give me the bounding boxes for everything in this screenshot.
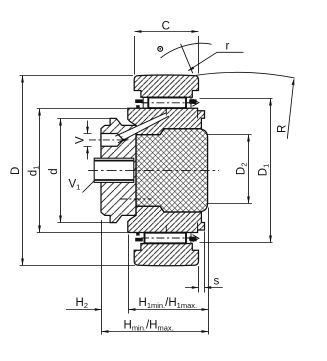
lubrication hole V (white cut with drill cone) — [101, 134, 123, 147]
thrust washer divider top — [197, 111, 199, 119]
roller bottom — [135, 233, 199, 244]
seal left black — [135, 99, 143, 103]
dim R (crown radius arc + leader) — [196, 72, 295, 139]
dim Hmin/Hmax — [102, 330, 209, 333]
inner ring top — [128, 108, 205, 134]
dim H1min/H1max — [129, 308, 209, 311]
svg-text:s: s — [214, 276, 220, 288]
svg-text:R: R — [277, 125, 289, 133]
dim r (corner radius leader) — [188, 52, 244, 71]
mirrored hole centerline bottom — [120, 198, 152, 200]
roller centerline top — [141, 102, 195, 104]
leader V1 — [83, 181, 95, 193]
svg-text:C: C — [162, 20, 170, 32]
dim d — [57, 119, 110, 223]
svg-text:d: d — [48, 168, 60, 174]
flange (sectioned) — [101, 118, 136, 222]
dim H2 — [66, 308, 102, 311]
seal right black — [189, 99, 196, 104]
outer ring bottom (crowned, sectioned) — [134, 244, 198, 266]
inner ring bottom — [128, 206, 205, 232]
dim D — [20, 76, 136, 266]
elastomer insert (cross-hatched) — [136, 129, 208, 212]
cage pocket right — [186, 98, 191, 108]
lubrication duct (white channel through flange) — [115, 113, 169, 143]
svg-text:D: D — [10, 167, 22, 175]
extension verticals for H dims — [102, 208, 209, 335]
V hole centerline with arrow — [89, 139, 126, 141]
grease nipple position mark (circled dot + arc) — [158, 43, 212, 73]
dim V (outside arrows) — [84, 121, 92, 160]
roller centerline bottom — [141, 237, 195, 239]
outer ring top (crowned, sectioned) — [134, 75, 198, 97]
cage pocket left — [143, 98, 148, 109]
dim s (outside arrows) — [185, 232, 223, 293]
svg-text:r: r — [226, 41, 230, 53]
axis centerline — [88, 169, 219, 171]
dim D2 — [206, 135, 252, 204]
dim d1 — [37, 109, 127, 233]
main drawing group — [88, 75, 219, 266]
dim D1 — [200, 99, 273, 243]
threaded bore V1 (white, thread double lines) — [94, 158, 134, 182]
dim C — [135, 30, 199, 74]
roller top — [135, 98, 199, 109]
svg-text:V: V — [75, 136, 87, 144]
thrust washer divider bottom — [197, 223, 199, 231]
